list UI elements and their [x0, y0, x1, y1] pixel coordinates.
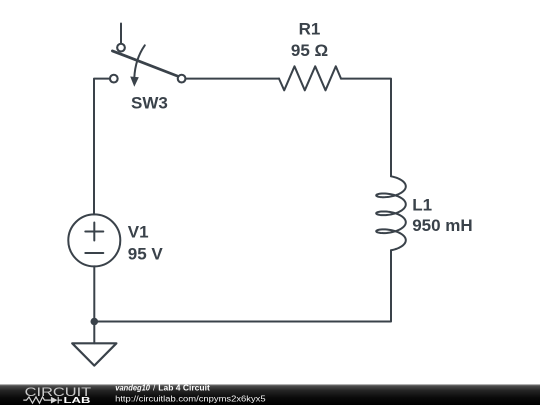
- logo schematic glyph diode triangle: [51, 397, 58, 404]
- svg-text:95 Ω: 95 Ω: [291, 41, 328, 60]
- svg-text:V1: V1: [128, 223, 149, 242]
- wire: switch top stub: [120, 24, 122, 44]
- svg-text:R1: R1: [299, 20, 321, 39]
- wire: V1 bottom to node: [93, 266, 95, 321]
- ground symbol: [72, 343, 116, 365]
- switch SW3 blade: [112, 51, 177, 76]
- svg-text:950 mH: 950 mH: [412, 216, 472, 235]
- wire: switch right terminal to resistor R1: [186, 78, 279, 80]
- logo schematic glyph diode bar and wire: [58, 397, 62, 404]
- footer bar: [0, 384, 540, 405]
- voltage source V1 circle: [68, 214, 120, 266]
- resistor R1: [279, 66, 341, 90]
- wire: switch left terminal to left rail corner down to V1 top: [94, 79, 110, 215]
- svg-text:95 V: 95 V: [128, 244, 164, 263]
- V1 plus sign: [85, 223, 103, 241]
- switch SW3 actuation arrow arc: [134, 45, 145, 78]
- wire: resistor to top-right corner down to inductor top: [341, 79, 391, 177]
- switch terminal circle right: [178, 75, 186, 83]
- svg-text:SW3: SW3: [131, 94, 168, 113]
- node junction dot: [91, 318, 99, 326]
- svg-text:L1: L1: [412, 195, 432, 214]
- V1 minus sign: [85, 252, 103, 254]
- logo schematic glyph resistor zigzag: [23, 397, 62, 404]
- wire: inductor bottom to bottom-right corner and left to node: [94, 250, 391, 321]
- switch terminal circle top: [117, 44, 125, 52]
- inductor L1 coil: [376, 176, 406, 250]
- svg-text:LAB: LAB: [64, 395, 91, 405]
- svg-text:vandeg10: vandeg10: [115, 383, 150, 393]
- svg-text:Lab 4 Circuit: Lab 4 Circuit: [158, 383, 210, 393]
- switch terminal circle left: [110, 75, 118, 83]
- switch arrowhead: [130, 77, 139, 87]
- wire: node to ground: [93, 322, 95, 344]
- svg-text:http://circuitlab.com/cnpyms2x: http://circuitlab.com/cnpyms2x6kyx5: [115, 394, 266, 403]
